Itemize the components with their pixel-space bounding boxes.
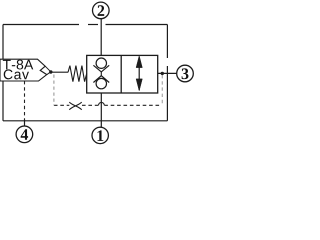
- port circle 2: [93, 2, 110, 19]
- pilot line dashed horizontal: [54, 104, 161, 106]
- valve body 2-position envelope: [87, 55, 158, 93]
- orifice X symbol: [69, 102, 81, 110]
- wire top line right segment: [106, 24, 168, 26]
- wire bottom line: [3, 120, 167, 122]
- wire port 2 stem: [100, 19, 102, 56]
- port circle 4: [16, 126, 33, 143]
- cavity callout T-8A Cav: [0, 59, 51, 81]
- wire right vertical upper: [166, 25, 168, 59]
- wire port 4 stem tick: [24, 120, 26, 127]
- spring: [51, 66, 87, 82]
- port 4 dashed stem: [24, 81, 26, 120]
- port circle 3: [177, 65, 194, 82]
- pilot hop over port1 stem: [99, 102, 105, 105]
- port circle 1: [92, 127, 108, 143]
- junction dot callout: [49, 70, 52, 73]
- check valve CV1 (top, seat below ball): [93, 58, 109, 72]
- wire between checks: [100, 72, 102, 76]
- double arrow flow path: [136, 56, 142, 91]
- wire left vertical: [2, 25, 4, 121]
- wire top line left segment: [3, 24, 79, 26]
- wire port 1 stem: [100, 93, 102, 127]
- wire port 3 line: [158, 72, 177, 74]
- pilot dashed vertical right (gray): [161, 75, 163, 105]
- wire right vertical lower: [166, 66, 168, 121]
- pilot dashed vertical left (gray): [53, 75, 55, 106]
- wire top line short dash: [88, 24, 98, 26]
- junction dot port 3: [161, 72, 164, 75]
- check valve CV2 (bottom, seat above ball): [93, 76, 109, 89]
